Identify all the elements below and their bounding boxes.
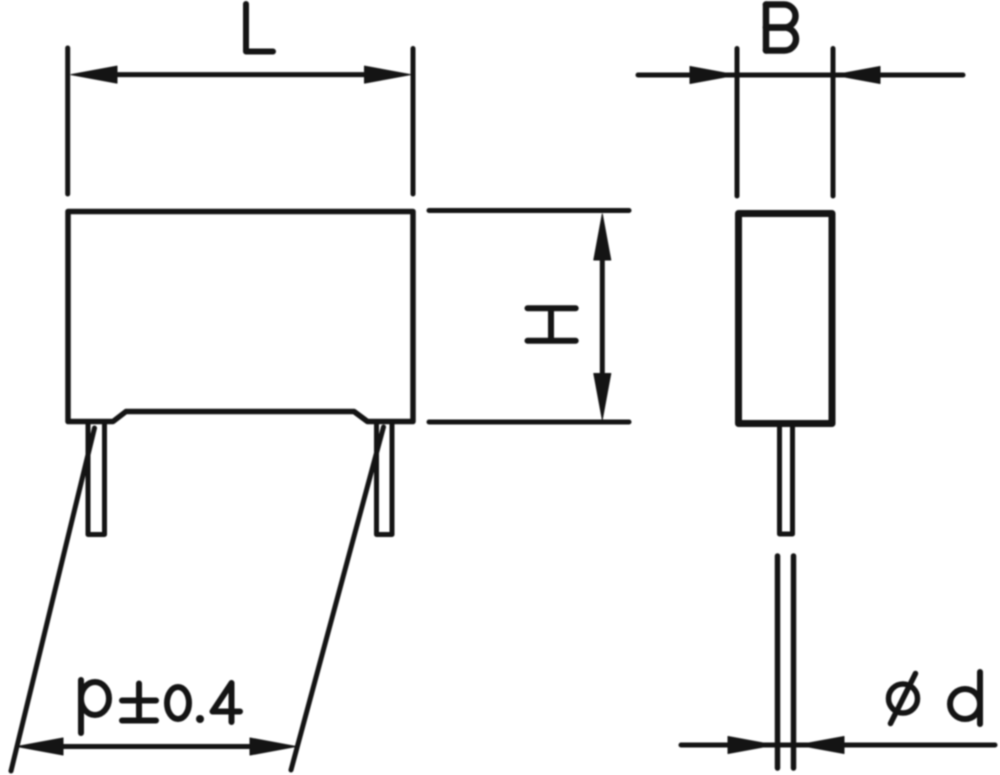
label 0 [167, 687, 189, 719]
p dimension line [35, 744, 278, 749]
pointer line from right lead [291, 427, 384, 770]
p arrowhead right [250, 738, 296, 755]
label diameter symbol [889, 674, 918, 724]
H top extension line [429, 208, 629, 213]
p arrowhead left [17, 738, 63, 755]
label d [950, 672, 980, 724]
label H (rotated) [528, 308, 576, 341]
L dimension line [85, 72, 397, 77]
d arrowhead pointing right [728, 737, 774, 754]
pointer line from left lead [11, 428, 95, 771]
H dimension line [600, 230, 605, 404]
label B [766, 5, 796, 51]
capacitor body side view [739, 214, 833, 424]
label plus-minus [122, 684, 156, 721]
L dimension extension line left [65, 48, 70, 194]
H bottom extension line [429, 420, 629, 425]
capacitor body front view [68, 212, 413, 422]
H arrowhead down [594, 374, 611, 420]
d arrowhead pointing left [798, 737, 844, 754]
B dimension extension line left [735, 49, 740, 197]
label L [246, 4, 273, 52]
label p [81, 680, 109, 733]
label 4 [213, 683, 241, 722]
H arrowhead up [594, 214, 611, 260]
B arrowhead pointing left [834, 67, 880, 84]
lead wire lower right line [791, 556, 797, 768]
lead wire lower left line [775, 556, 781, 768]
B arrowhead pointing right [690, 67, 736, 84]
lead side view upper [780, 424, 793, 535]
L dimension extension line right [411, 49, 416, 195]
d dimension line [681, 743, 995, 748]
left lead front view [88, 422, 105, 535]
L arrowhead right [365, 66, 411, 83]
label . [196, 715, 204, 723]
B dimension line [638, 73, 963, 78]
B dimension extension line right [831, 49, 836, 197]
right lead front view [377, 422, 393, 535]
L arrowhead left [71, 66, 117, 83]
